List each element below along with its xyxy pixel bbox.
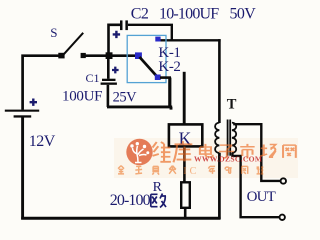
wire C1 bottom horizontal [107,107,172,110]
svg-text:C1: C1 [86,71,100,85]
capacitor C1 [101,56,117,107]
transformer T core [227,120,231,156]
svg-text:25V: 25V [113,89,138,105]
svg-text:100UF: 100UF [62,88,102,104]
wire K-2 to relay coil [183,72,186,125]
relay arm pivot contact [135,52,142,59]
wire transformer primary bottom [218,153,221,219]
char zi [219,145,234,158]
char chang [260,144,275,157]
watermark halo [114,138,298,178]
watermark logo [126,139,152,165]
wire battery-to-switch top-left [23,56,59,110]
wire riser to K-2 contact [168,78,171,108]
transformer T secondary winding [232,123,236,153]
relay arm [140,57,158,77]
switch S [58,33,85,59]
battery polarity plus [30,99,37,106]
watermark slogan line [118,166,263,177]
svg-text:WWW.DZSC.COM: WWW.DZSC.COM [194,155,262,164]
svg-text:C: C [190,166,197,177]
relay coil K box [169,124,202,146]
char dian [200,144,213,157]
OUT terminal bottom [280,215,285,220]
wire node-A riser to C2 [109,25,121,56]
svg-text:I: I [183,166,186,177]
capacitor C2 [120,20,128,30]
wire resistor to bottom rail [184,208,187,220]
svg-text:20-100: 20-100 [110,192,151,209]
wire secondary top to OUT [233,123,280,181]
contact K-2 [155,75,161,81]
node A junction [106,52,113,59]
wire down to transformer primary [218,39,221,123]
relay contact block outline [127,35,166,82]
resistor R [181,182,190,208]
watermark big text wei-ku (large) [153,141,193,162]
char shi [240,144,254,159]
svg-text:C2: C2 [131,6,149,23]
C1 polarity plus [112,67,119,74]
svg-text:R: R [153,180,163,195]
label ohm character [151,194,166,208]
contact K-1 [155,37,160,42]
transformer T primary winding [215,123,219,153]
svg-text:K-2: K-2 [158,59,180,75]
svg-text:S: S [50,25,57,40]
char wang [283,145,296,158]
wire secondary bottom to OUT [232,153,279,218]
svg-text:50V: 50V [230,6,257,23]
battery B1 [5,110,39,220]
svg-text:12V: 12V [29,133,56,150]
wire C2 to corner [128,24,173,41]
wire K-1 contact to transformer (top horizontal) [158,39,221,41]
wire K-2 contact stub [160,76,171,79]
wire coil to resistor [183,146,186,183]
char wei [153,142,171,162]
svg-text:10-100UF: 10-100UF [159,6,219,23]
svg-text:OUT: OUT [247,189,276,205]
char ku [173,141,192,162]
svg-text:T: T [227,97,237,113]
svg-text:K: K [179,128,192,148]
C2 polarity plus [113,31,120,38]
bottom rail wire [21,217,220,220]
wire switch-to-node-A [85,54,137,57]
label C2 10-100UF 50V [131,6,257,23]
OUT terminal top [281,178,286,183]
watermark medium text dian-zi-shi-chang-wang [200,144,296,159]
